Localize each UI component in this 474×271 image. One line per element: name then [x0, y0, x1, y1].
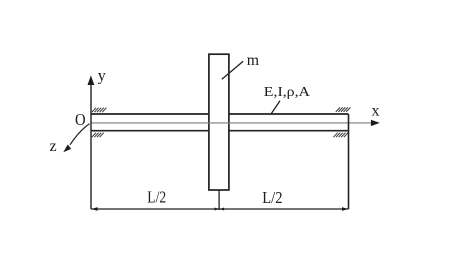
svg-text:m: m — [247, 52, 260, 69]
svg-text:E,I,ρ,A: E,I,ρ,A — [264, 85, 311, 100]
svg-text:x: x — [372, 102, 380, 119]
svg-text:L/2: L/2 — [262, 188, 282, 207]
svg-text:L/2: L/2 — [147, 187, 166, 206]
svg-text:y: y — [98, 68, 106, 85]
svg-text:z: z — [50, 138, 57, 155]
svg-text:O: O — [75, 110, 86, 129]
